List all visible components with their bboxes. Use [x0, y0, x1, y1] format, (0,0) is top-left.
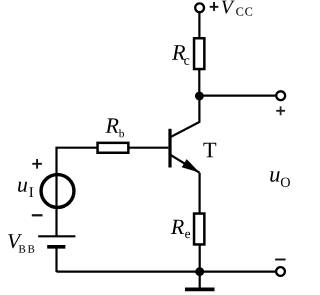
label output plus sign — [276, 106, 285, 115]
label uI u — [18, 182, 27, 192]
resistor Re — [194, 214, 204, 245]
battery VBB — [38, 236, 75, 247]
wire emitter lead — [199, 173, 201, 214]
label T — [203, 143, 216, 158]
label Rc R — [172, 45, 185, 60]
label Re R — [171, 220, 184, 234]
label uO u — [270, 171, 279, 182]
terminal output minus — [276, 267, 285, 276]
wire uI top corner to Rb — [57, 148, 98, 237]
node emitter ground junction — [195, 267, 204, 276]
wire VCC terminal to Rc — [198, 13, 200, 38]
label VBB V — [8, 234, 22, 248]
label Rb b subscript — [119, 129, 124, 137]
resistor Rc — [194, 38, 204, 69]
source uI — [41, 175, 74, 208]
wire collector lead — [171, 96, 199, 137]
terminal VCC supply — [195, 3, 204, 12]
wire Rc to collector node — [198, 69, 200, 96]
ground — [185, 272, 215, 290]
label Rb R — [105, 118, 118, 132]
wire VBB to bottom rail — [55, 247, 57, 272]
label output minus sign — [275, 259, 286, 261]
wire Re to bottom node — [199, 244, 201, 271]
label Rc c subscript — [184, 58, 189, 65]
wire base lead — [129, 147, 168, 149]
label uI minus polarity — [32, 214, 43, 216]
label plus sign VCC — [210, 2, 219, 11]
label uO O subscript — [281, 178, 290, 188]
transistor T — [170, 129, 200, 173]
wire collector node to output plus terminal — [199, 94, 276, 96]
label VCC V — [222, 1, 235, 14]
node collector junction — [195, 92, 204, 101]
resistor Rb — [98, 143, 129, 153]
label uI I subscript — [29, 187, 33, 197]
label Re e subscript — [185, 232, 190, 239]
label VCC CC subscript — [236, 8, 243, 16]
terminal output plus — [276, 91, 285, 100]
label uI plus polarity — [32, 159, 42, 169]
wire bottom rail — [57, 271, 277, 273]
label VBB BB subscript — [19, 245, 25, 252]
